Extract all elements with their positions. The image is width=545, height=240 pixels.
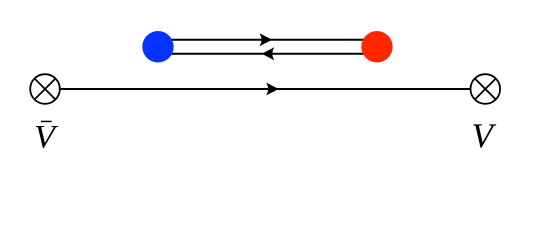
wire: upper quark line (top of double line) [158,39,377,41]
label V-bar (left): V glyph [36,126,59,148]
node: red antiquark dot [361,31,392,62]
crossed-circle source V-bar (left) [30,74,60,104]
wire: lower quark line (bottom of double line) [158,53,377,55]
crossed-circle source V (right) [471,74,501,104]
node: blue quark dot [142,31,173,62]
label V-bar (left): macron bar [41,121,52,123]
arrowhead right on upper quark line [260,33,272,46]
arrowhead left on lower quark line [262,47,274,60]
wire: bottom static line [60,88,471,90]
label V (right) [473,124,496,148]
arrowhead right on bottom static line [266,83,278,96]
